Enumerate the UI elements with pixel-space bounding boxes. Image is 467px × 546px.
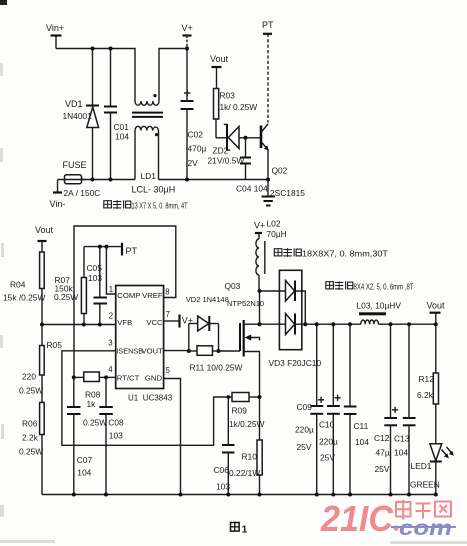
resistor R06 2.2k 0.25W: [19, 403, 44, 495]
capacitor C08 103: [99, 377, 124, 494]
svg-text:R08: R08: [85, 390, 101, 400]
wire VFB bus: [42, 324, 116, 326]
svg-text:R12: R12: [419, 374, 435, 384]
svg-text:0.25W: 0.25W: [54, 292, 78, 302]
svg-text:ZD2: ZD2: [213, 146, 229, 156]
junction rail C13: [407, 493, 411, 497]
capacitor C02 470u 2V: [181, 49, 207, 180]
svg-text:104: 104: [355, 437, 369, 447]
svg-text:C09: C09: [297, 402, 313, 412]
svg-text:C05: C05: [87, 263, 103, 273]
svg-text:PT: PT: [126, 246, 138, 256]
junction COMP C05: [98, 245, 102, 249]
svg-text:ISENSB: ISENSB: [116, 347, 143, 356]
svg-text:1N4001: 1N4001: [63, 111, 93, 121]
junction C12 top: [389, 322, 393, 326]
svg-text:1k/ 0.25W: 1k/ 0.25W: [220, 102, 258, 112]
svg-text:FUSE: FUSE: [63, 160, 87, 170]
junction drain node main: [258, 322, 262, 326]
svg-text:0.25W: 0.25W: [19, 447, 43, 457]
svg-text:C13: C13: [394, 434, 410, 444]
junction VFB C05: [98, 323, 102, 327]
junction top rail VD1: [91, 47, 95, 51]
junction R08 C07 VREF: [72, 375, 76, 379]
capacitor C11 104: [344, 324, 370, 494]
svg-text:LED1: LED1: [411, 461, 432, 471]
svg-text:LD1: LD1: [141, 171, 157, 181]
junction R09 C06: [226, 395, 230, 399]
junction rail C09: [315, 493, 319, 497]
junction node V+: [185, 46, 189, 50]
svg-text:104: 104: [115, 132, 129, 142]
core note 磁芯为13X7X5, 0.8mm, 4T: [104, 200, 188, 210]
junction C11 top: [348, 322, 352, 326]
svg-text:V+: V+: [182, 23, 193, 33]
resistor R05 220 0.25W: [19, 325, 62, 403]
svg-text:25V: 25V: [297, 442, 312, 452]
junction VFB R07: [82, 323, 86, 327]
junction rail C07: [72, 493, 76, 497]
junction VD3 out: [303, 322, 307, 326]
resistor R03 1k/0.25W: [214, 89, 258, 138]
svg-text:21IC: 21IC: [320, 498, 394, 539]
svg-text:47µ: 47µ: [376, 448, 390, 458]
zener ZD2 21V/0.5W: [208, 124, 262, 166]
svg-text:25V: 25V: [320, 453, 335, 463]
junction drain node top: [258, 289, 262, 293]
svg-text:1: 1: [109, 285, 113, 294]
svg-text:220µ: 220µ: [295, 425, 314, 435]
wire COMP pin1: [106, 247, 115, 294]
svg-text:GND: GND: [145, 374, 163, 383]
terminal V+ top: [182, 23, 193, 49]
terminal Vin+: [46, 23, 64, 49]
op-amp U1 UC3843 box: [116, 286, 173, 403]
junction bottom rail C02: [185, 178, 189, 182]
svg-text:C10: C10: [319, 420, 335, 430]
svg-text:6.2k: 6.2k: [417, 390, 434, 400]
capacitor C05 103: [87, 247, 108, 325]
svg-text:V+: V+: [254, 221, 265, 231]
wire top rail left: [56, 49, 135, 102]
svg-text:103: 103: [216, 482, 230, 492]
wire top rail right: [159, 49, 187, 102]
transistor Q03 NTP52N10: [225, 281, 265, 397]
svg-text:470µ: 470µ: [188, 144, 207, 154]
watermark 21IC logo: [320, 498, 399, 539]
resistor R11 10/0.25W: [187, 346, 243, 373]
svg-text:LCL- 30µH: LCL- 30µH: [132, 185, 176, 195]
svg-text:70µH: 70µH: [267, 229, 287, 239]
watermark 电子网: [396, 500, 451, 520]
wire RT/CT pin4: [106, 376, 116, 378]
inductor L03 10uH: [357, 301, 402, 325]
resistor R10 0.22/1W: [229, 395, 262, 495]
fuse FUSE 2A/150C: [58, 160, 101, 198]
svg-text:C08: C08: [108, 418, 124, 428]
figure label 图1: [231, 523, 248, 536]
junction Vout node: [434, 322, 438, 326]
svg-text:Q03: Q03: [225, 281, 241, 291]
svg-text:VREF: VREF: [142, 291, 163, 300]
junction rail C08: [104, 493, 108, 497]
capacitor C09 220u 25V: [295, 324, 324, 494]
svg-text:103: 103: [88, 273, 102, 283]
svg-text:7: 7: [166, 310, 170, 319]
resistor R09 1k/0.25W: [229, 393, 264, 430]
wire ground rail: [42, 494, 436, 496]
watermark com script: [391, 517, 456, 540]
terminal PT mid: [122, 243, 138, 256]
svg-text:25V: 25V: [375, 464, 390, 474]
svg-text:GREEN: GREEN: [410, 480, 440, 490]
capacitor C06 103: [214, 397, 235, 495]
svg-text:R03: R03: [220, 91, 236, 101]
svg-text:VD3 F20JC10: VD3 F20JC10: [269, 358, 322, 368]
ground: [262, 180, 276, 206]
junction rail C11: [348, 493, 352, 497]
junction bottom rail VD1: [91, 178, 95, 182]
svg-text:C12: C12: [374, 433, 390, 443]
svg-text:15k /0.25W: 15k /0.25W: [3, 293, 45, 303]
svg-text:21V/0.5W: 21V/0.5W: [208, 156, 245, 166]
wire drain vertical: [259, 291, 261, 324]
svg-text:C06: C06: [214, 465, 230, 475]
svg-text:Vin+: Vin+: [46, 23, 64, 33]
terminal Vout mid-left: [35, 225, 54, 252]
svg-text:R04: R04: [10, 280, 26, 290]
capacitor C01 104: [104, 49, 129, 180]
svg-text:5: 5: [166, 366, 171, 375]
svg-text:Vout: Vout: [427, 301, 446, 311]
wire VCC pin7: [164, 320, 180, 322]
svg-text:1k: 1k: [87, 399, 97, 409]
junction COMP pin1: [104, 245, 108, 249]
wire COMP line: [84, 246, 122, 248]
LED LED1 GREEN: [410, 444, 454, 495]
svg-text:RT/CT: RT/CT: [117, 374, 140, 383]
junction rail C12: [389, 493, 393, 497]
svg-text:2SC1815: 2SC1815: [270, 188, 305, 198]
capacitor C04 104: [236, 138, 268, 194]
rectifier VD3 F20JC10: [260, 270, 322, 368]
svg-text:Q02: Q02: [272, 166, 288, 176]
svg-text:2V: 2V: [188, 158, 199, 168]
svg-text:3: 3: [108, 339, 112, 348]
svg-text:L02: L02: [267, 219, 281, 229]
junction top rail C01: [109, 47, 113, 51]
core note 磁芯为18X8X7, 0.8mm,30T: [274, 248, 388, 258]
svg-text:Vout: Vout: [35, 225, 54, 235]
svg-text:Vin-: Vin-: [50, 199, 66, 209]
junction rail C06: [226, 493, 230, 497]
svg-text:2: 2: [109, 312, 113, 321]
resistor R07 150k 0.25W: [54, 247, 86, 325]
diode VD1 1N4001: [63, 49, 100, 180]
inductor LD1 common-mode choke: [132, 94, 176, 195]
capacitor C07 104: [67, 377, 93, 494]
capacitor C13 104: [394, 324, 416, 494]
wire output bus right: [378, 323, 435, 325]
junction VFB R04: [40, 323, 44, 327]
terminal Vout top: [210, 54, 229, 89]
svg-text:8: 8: [165, 288, 169, 297]
junction rail GND: [179, 493, 183, 497]
svg-text:220µ: 220µ: [319, 437, 338, 447]
resistor R08 1k 0.25W: [74, 372, 108, 428]
junction rail C10: [331, 493, 335, 497]
transistor Q02 2SC1815: [261, 124, 305, 198]
svg-text:PT: PT: [262, 20, 274, 30]
svg-text:4: 4: [108, 365, 113, 374]
svg-text:0.25W: 0.25W: [83, 418, 107, 428]
svg-text:0.25W: 0.25W: [19, 386, 43, 396]
junction Q02 emitter rail: [266, 178, 270, 182]
svg-text:R11 10/0.25W: R11 10/0.25W: [190, 363, 243, 373]
svg-text:Vout: Vout: [210, 54, 229, 64]
core note 磁芯为8X4X2.5, 0.6mm,8T: [326, 281, 414, 291]
inductor L02 70uH: [254, 219, 287, 292]
svg-text:18X8X7, 0. 8mm,30T: 18X8X7, 0. 8mm,30T: [302, 249, 388, 259]
junction rail R10: [258, 493, 262, 497]
wire ISENSB sense loop: [62, 351, 232, 446]
svg-text:C07: C07: [77, 455, 93, 465]
svg-text:VOUT: VOUT: [141, 347, 163, 356]
terminal Vout right: [427, 301, 446, 325]
wire output bus left: [295, 323, 361, 325]
junction bottom rail C01: [109, 178, 113, 182]
junction C10 top: [331, 322, 335, 326]
scan corner mark: [0, 0, 7, 5]
wire bottom rail left: [82, 179, 136, 181]
svg-text:C02: C02: [188, 130, 204, 140]
wire GND pin5: [164, 379, 181, 495]
svg-text:NTP52N10: NTP52N10: [227, 299, 264, 308]
svg-text:C01: C01: [114, 122, 130, 132]
svg-text:8X4 X2. 5, 0. 6mm ,8T: 8X4 X2. 5, 0. 6mm ,8T: [354, 282, 414, 292]
svg-text:VD1: VD1: [65, 99, 83, 109]
svg-text:103: 103: [109, 431, 123, 441]
wire VREF loop: [74, 226, 176, 377]
resistor R04 15k/0.25W: [3, 252, 45, 325]
svg-text:2A / 150C: 2A / 150C: [64, 188, 101, 198]
wire bottom rail right: [159, 179, 269, 181]
junction pin4 C08: [104, 375, 108, 379]
svg-text:C04 104: C04 104: [236, 184, 268, 194]
svg-text:VCC: VCC: [146, 318, 163, 327]
capacitor C12 47u 25V: [374, 324, 398, 494]
terminal PT top: [262, 20, 274, 123]
svg-text:104: 104: [77, 468, 91, 478]
wire VOUT pin6: [164, 350, 189, 352]
svg-text:COMP: COMP: [117, 291, 140, 300]
svg-text:com: com: [399, 517, 452, 540]
capacitor C10 220u 25V: [319, 324, 341, 494]
svg-text:VFB: VFB: [117, 318, 132, 327]
svg-text:2.2k: 2.2k: [22, 433, 39, 443]
svg-text:R06: R06: [22, 419, 38, 429]
svg-text:220: 220: [22, 372, 36, 382]
terminal Vin-: [50, 180, 66, 210]
svg-text:R10: R10: [242, 452, 258, 462]
junction ZD2-C04-base: [244, 136, 248, 140]
wire gate: [219, 350, 241, 352]
svg-text:1: 1: [242, 524, 248, 536]
svg-text:R09: R09: [232, 406, 248, 416]
svg-text:104: 104: [394, 448, 408, 458]
svg-text:0.22/1W: 0.22/1W: [229, 468, 260, 478]
junction C13 top: [407, 322, 411, 326]
svg-text:C11: C11: [354, 421, 369, 431]
junction C09 top: [315, 322, 319, 326]
svg-text:R05: R05: [47, 340, 63, 350]
svg-text:VD2 1N4148: VD2 1N4148: [186, 295, 229, 304]
svg-text:U1: U1: [128, 394, 139, 403]
svg-text:UC3843: UC3843: [143, 394, 173, 403]
resistor R12 6.2k: [417, 324, 439, 443]
junction rail LED: [434, 493, 438, 497]
terminal V+ pin7: [180, 315, 194, 328]
svg-text:13 X7 X 5, 0. 8mm, 4T: 13 X7 X 5, 0. 8mm, 4T: [132, 201, 188, 211]
svg-text:L03, 10µHV: L03, 10µHV: [357, 301, 402, 311]
diode VD2 1N4148: [186, 295, 229, 351]
